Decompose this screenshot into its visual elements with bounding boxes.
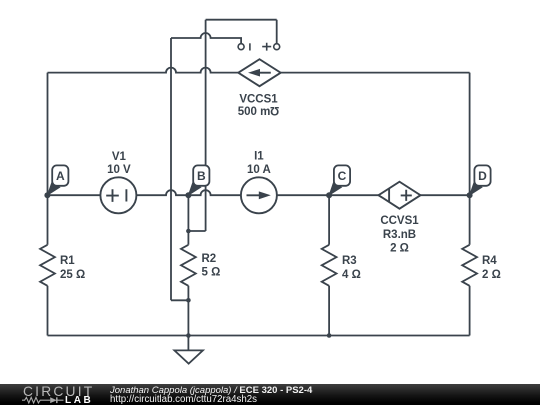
svg-text:V1: V1 (112, 151, 127, 163)
resistor R1 (40, 245, 55, 286)
CCVS1 dependent voltage source (diamond with - +) (379, 182, 421, 209)
svg-text:10 A: 10 A (247, 164, 271, 176)
CircuitLab logo (23, 384, 94, 399)
svg-text:B: B (197, 169, 206, 183)
wire second control (left vertical to VCCS - terminal, hop over x=205.6) (171, 33, 241, 44)
VCCS1 control terminal - (circle and bar) (238, 43, 250, 50)
wire main top (y=72.6 with two hops) (48, 68, 470, 196)
ground (174, 336, 203, 364)
wire bottom rail (48, 335, 470, 337)
svg-text:500 m: 500 m (238, 106, 271, 118)
wire top control (node B loop to VCCS + terminal) (188, 20, 276, 231)
wire R2 branch (187, 195, 189, 335)
resistor R4 (462, 245, 477, 286)
node A (44, 165, 68, 198)
svg-text:I1: I1 (254, 151, 264, 163)
svg-text:Ω: Ω (270, 104, 279, 116)
svg-text:2 Ω: 2 Ω (390, 242, 409, 254)
svg-text:R3.nB: R3.nB (383, 229, 416, 241)
footer bar (0, 384, 540, 405)
svg-text:R1: R1 (60, 255, 75, 267)
wire R1 branch (47, 195, 49, 335)
node D (467, 165, 491, 198)
svg-text:10 V: 10 V (107, 164, 131, 176)
node C (326, 165, 350, 198)
svg-text:A: A (56, 169, 65, 183)
wire left control vertical (171, 38, 188, 300)
VCCS1 dependent current source (diamond, arrow left) (238, 59, 280, 86)
svg-text:D: D (478, 169, 487, 183)
wire R3 branch (328, 195, 330, 335)
resistor R2 (181, 245, 196, 286)
svg-text:C: C (338, 169, 347, 183)
footer text (110, 385, 312, 396)
svg-text:CCVS1: CCVS1 (380, 215, 419, 227)
junction dots (186, 229, 331, 338)
svg-text:4 Ω: 4 Ω (342, 269, 361, 281)
node B (185, 165, 209, 198)
svg-text:2 Ω: 2 Ω (482, 269, 501, 281)
current source I1 (241, 177, 277, 213)
svg-text:R4: R4 (482, 255, 497, 267)
svg-text:VCCS1: VCCS1 (239, 94, 278, 106)
svg-text:5 Ω: 5 Ω (202, 267, 221, 279)
resistor R3 (322, 245, 337, 286)
wire main row (y=195.2) (48, 190, 470, 195)
VCCS1 control terminal + (plus and circle) (262, 43, 280, 51)
svg-text:R2: R2 (202, 253, 217, 265)
wire R4 branch (469, 195, 471, 335)
voltage source V1 (100, 177, 136, 213)
svg-text:25 Ω: 25 Ω (60, 269, 85, 281)
svg-text:R3: R3 (342, 255, 357, 267)
